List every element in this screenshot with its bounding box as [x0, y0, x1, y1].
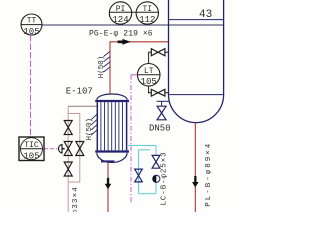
svg-text:PL-B-φ89×4: PL-B-φ89×4 — [205, 142, 213, 207]
valve V4 (bypass) — [76, 142, 84, 156]
pipe LT standpipe lower — [148, 86, 150, 93]
heat exchanger E-107 bottom nozzle bar — [101, 160, 114, 162]
flow arrow on PL line — [192, 176, 199, 187]
column bottom tangent line — [169, 94, 224, 96]
heat exchanger E-107 top head — [97, 94, 127, 100]
svg-text:TIC: TIC — [24, 141, 39, 150]
controller TIC-105 (panel mounted) — [19, 137, 44, 161]
valve condensate right — [152, 155, 160, 168]
svg-text:43: 43 — [199, 9, 212, 21]
svg-text:105: 105 — [141, 77, 157, 87]
valve drain DN50 — [157, 106, 166, 120]
flow arrow on PG-E line — [118, 39, 131, 45]
pipe PG-E horizontal to column — [110, 41, 168, 43]
column shell right wall — [223, 0, 225, 95]
pipe shell-side nozzle into E-107 — [68, 105, 96, 107]
instrument signal LT (magenta dash-dot) — [131, 75, 137, 203]
valve V1 (block, top) — [64, 121, 72, 135]
valve V3 (block, bottom) — [64, 162, 72, 176]
svg-text:LT: LT — [144, 67, 154, 76]
pipe drain stub DN50 — [157, 101, 170, 106]
svg-text:DN50: DN50 — [149, 124, 171, 134]
wire divider line through PI and TI — [109, 11, 158, 13]
instrument TI-112 — [136, 2, 158, 25]
control valve TV (middle) — [64, 142, 72, 156]
pipe main valve column — [67, 106, 69, 212]
svg-text:H(50): H(50) — [86, 118, 94, 141]
valve condensate left — [135, 169, 143, 182]
heat exchanger E-107 shell walls — [96, 102, 98, 150]
instrument LT-105 — [137, 64, 160, 87]
pipe condensate header (cyan) — [127, 145, 156, 193]
svg-text:φ33×4: φ33×4 — [72, 186, 80, 212]
steam trap ball symbol — [153, 175, 160, 182]
heat tracing hatch upper — [103, 51, 110, 72]
heat exchanger E-107 top tubesheet flange — [95, 100, 129, 102]
svg-text:PG-E-φ 219 ×6: PG-E-φ 219 ×6 — [89, 29, 153, 38]
column shell left wall — [168, 0, 170, 95]
instrument TT-105 — [21, 14, 42, 37]
heat exchanger E-107 bottom tubesheet flange — [95, 150, 129, 152]
wire TT tap line to column — [21, 24, 224, 26]
svg-text:H(50): H(50) — [98, 56, 106, 79]
svg-text:TT: TT — [27, 17, 37, 26]
control valve actuator (diaphragm) — [59, 144, 62, 153]
pipe E-107 bottom outlet — [107, 163, 109, 213]
column bottom head — [169, 95, 224, 123]
pipe PG-E vertical riser from E-107 — [109, 41, 111, 94]
pipe column bottom outlet PL — [194, 123, 196, 212]
svg-text:E-107: E-107 — [66, 86, 93, 96]
valve LT bottom isolation — [148, 89, 169, 96]
svg-text:124: 124 — [112, 15, 128, 25]
instrument signal TT to TIC (magenta dashed) — [30, 35, 32, 137]
pipe bypass loop — [68, 114, 80, 183]
pipe LT standpipe upper — [148, 52, 150, 64]
instrument signal TIC to control valve (magenta dashed) — [44, 148, 58, 150]
tray 43 line — [169, 19, 224, 21]
svg-text:105: 105 — [23, 27, 39, 37]
heat tracing hatch lower — [91, 114, 97, 135]
flow arrow on E-107 outlet — [105, 178, 112, 189]
instrument PI-124 — [109, 2, 131, 25]
svg-text:LC-B-φ25×3: LC-B-φ25×3 — [161, 151, 169, 205]
valve LT top isolation — [149, 49, 169, 56]
svg-text:112: 112 — [139, 15, 155, 25]
svg-text:105: 105 — [23, 151, 39, 161]
heat exchanger E-107 tubes — [101, 102, 123, 150]
heat exchanger E-107 bottom head — [97, 153, 127, 163]
